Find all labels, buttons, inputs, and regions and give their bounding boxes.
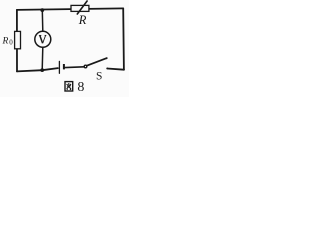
svg-text:0: 0 [9,38,13,46]
svg-text:8: 8 [77,80,84,95]
svg-text:R: R [78,13,87,27]
svg-text:S: S [96,71,102,83]
svg-text:R: R [2,37,9,47]
